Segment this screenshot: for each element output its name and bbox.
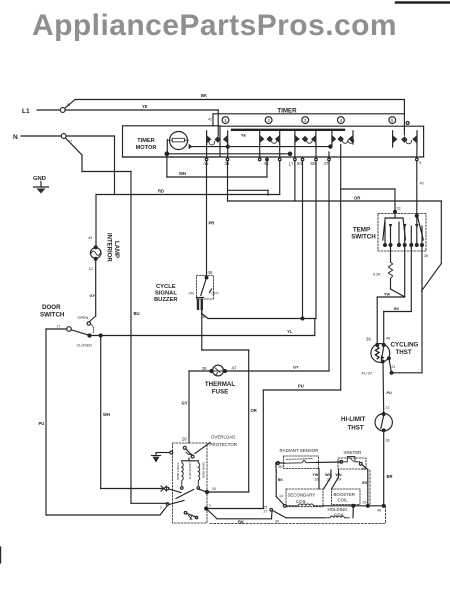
svg-text:PU: PU: [39, 421, 45, 426]
svg-text:RD: RD: [362, 481, 368, 485]
main winding: [197, 461, 205, 490]
wire YW temp switch to cycling left: [377, 245, 405, 345]
thermal fuse F1: [202, 365, 237, 395]
wire BK from L1 to timer 5: [65, 93, 409, 135]
overload protector label: [195, 435, 237, 454]
svg-text:IGNITER: IGNITER: [344, 450, 362, 455]
igniter R2: [338, 450, 366, 471]
svg-text:YW: YW: [313, 473, 319, 477]
svg-text:BR: BR: [387, 474, 393, 479]
svg-text:WN: WN: [336, 473, 342, 477]
timer motor M: [165, 132, 192, 156]
svg-text:40: 40: [420, 182, 424, 186]
motor winding bridge: [182, 460, 199, 462]
svg-text:28: 28: [202, 366, 207, 371]
svg-text:27: 27: [264, 510, 268, 514]
timer switch cluster 5: [393, 131, 417, 147]
wire BV temp switch to cycling right: [384, 245, 412, 345]
wire terminal 45 to buzzer: [207, 161, 215, 277]
svg-text:75: 75: [67, 103, 71, 107]
wire terminal 17b to OR bus: [294, 161, 296, 201]
svg-text:HOLDING: HOLDING: [328, 507, 349, 512]
door switch S1: [40, 304, 94, 348]
svg-text:BV: BV: [394, 307, 400, 311]
motor ground: [152, 451, 173, 463]
hi-limit thermostat TH2: [341, 406, 392, 443]
svg-text:1: 1: [209, 504, 211, 508]
svg-text:BOOSTER: BOOSTER: [334, 492, 355, 497]
secondary coil L1s: [283, 489, 323, 507]
interior lamp DS1: [88, 195, 101, 272]
interior lamp label: [106, 233, 120, 262]
ground GND: [33, 176, 49, 194]
timer terminal 48b: [258, 157, 261, 161]
timer terminal 36: [225, 157, 230, 166]
svg-text:SWITCH: SWITCH: [40, 312, 65, 319]
jumper timer to temp switch 33: [341, 189, 401, 213]
svg-text:CLOSED: CLOSED: [77, 344, 93, 348]
timer terminal 17: [278, 157, 281, 161]
svg-text:46: 46: [377, 509, 381, 513]
wire terminal 36 down: [227, 161, 229, 201]
wire GY thermal fuse to overload: [182, 371, 212, 443]
svg-text:47: 47: [324, 161, 329, 166]
wire terminal 47 to thermal fuse: [328, 161, 330, 371]
node N: [13, 134, 72, 144]
svg-text:24: 24: [338, 478, 342, 482]
wire lamp to door switch open: [89, 259, 96, 322]
svg-text:OR: OR: [251, 408, 257, 413]
wires YW WN to coils: [313, 469, 342, 490]
svg-text:THERMAL: THERMAL: [205, 381, 235, 388]
wire BU from N down left side: [66, 138, 168, 503]
timer terminal 60: [301, 157, 304, 161]
svg-text:36: 36: [366, 337, 371, 342]
temp switch bridge: [383, 212, 424, 240]
wire temp switch to cycling 21: [392, 245, 423, 373]
overload protector sw: [183, 446, 194, 461]
wire WH timer motor to terminal 48: [167, 154, 267, 177]
svg-text:5: 5: [391, 118, 394, 123]
timer position circles 1-5: [222, 117, 396, 124]
wire BK radiant sensor to secondary coil: [276, 463, 284, 505]
wire buzzer 30 to timer 60: [202, 310, 316, 320]
timer switch cluster 3: [295, 131, 316, 144]
motor terminal 1: [205, 504, 211, 511]
timer switch cluster 1: [207, 131, 230, 148]
svg-text:29: 29: [363, 501, 367, 505]
wire jog buzzer bus to YL: [314, 319, 316, 336]
wire terminal 94 to buzzer junction: [302, 161, 304, 319]
svg-text:PR: PR: [209, 221, 215, 226]
booster coil L2: [332, 489, 361, 505]
svg-text:DRIVE MTR: DRIVE MTR: [188, 463, 192, 480]
timer terminal 94: [289, 157, 303, 167]
svg-text:49: 49: [386, 337, 390, 341]
svg-text:DOOR: DOOR: [42, 304, 61, 311]
wire OR bus: [228, 196, 442, 292]
cycling thermostat TH1: [362, 337, 419, 376]
timer terminal 60b: [311, 157, 318, 166]
centrifugal switch blade: [160, 487, 194, 509]
svg-text:PU: PU: [387, 391, 393, 395]
svg-text:36: 36: [386, 439, 390, 443]
svg-text:YW: YW: [384, 293, 391, 297]
start winding: [176, 461, 192, 490]
wire PU temp switch to motor circuit: [207, 384, 341, 509]
svg-text:WH: WH: [179, 171, 186, 176]
wire YL door switch to timer 94: [90, 329, 315, 337]
svg-text:PU 37: PU 37: [362, 372, 373, 376]
wire radiant sensor to igniter: [316, 461, 341, 463]
timer switch cluster 2: [260, 131, 280, 147]
drive motor M1 box: [173, 443, 208, 523]
svg-text:GY: GY: [293, 366, 299, 370]
wire timer motor to cam 4 lower: [167, 152, 292, 155]
svg-text:L1: L1: [22, 108, 30, 115]
svg-text:47: 47: [232, 366, 237, 371]
svg-text:60: 60: [311, 161, 316, 166]
svg-text:28: 28: [182, 437, 187, 442]
svg-text:MOTOR: MOTOR: [136, 145, 157, 151]
svg-text:CYCLE: CYCLE: [156, 284, 176, 290]
svg-text:43: 43: [88, 236, 92, 240]
timer switch cluster 4: [332, 131, 354, 146]
svg-text:WN: WN: [325, 473, 331, 477]
page edge tick bottom left: [0, 547, 2, 563]
wire N to RD bus: [66, 136, 114, 195]
svg-text:TEMP: TEMP: [353, 227, 370, 234]
svg-text:37: 37: [386, 406, 390, 410]
svg-text:14: 14: [279, 494, 283, 498]
cycle signal buzzer BZ1: [154, 270, 219, 310]
timer internal risers: [207, 144, 417, 157]
svg-text:YE: YE: [142, 104, 148, 109]
svg-text:THST: THST: [396, 349, 412, 356]
svg-text:22: 22: [327, 478, 331, 482]
svg-text:9.2K: 9.2K: [373, 273, 381, 277]
wire WH door switch to motor: [101, 336, 167, 492]
wire terminal 60 to buzzer junction: [315, 161, 317, 319]
svg-text:COIL: COIL: [338, 498, 349, 503]
svg-text:1: 1: [224, 118, 227, 123]
svg-text:BUZZER: BUZZER: [154, 297, 178, 303]
svg-text:OVERLOAD: OVERLOAD: [211, 435, 235, 440]
logo underline top right: [396, 1, 450, 3]
svg-text:PU: PU: [298, 384, 304, 389]
svg-text:12: 12: [89, 267, 93, 271]
wire BR hi-limit to holding coil: [384, 430, 393, 506]
svg-text:2: 2: [267, 118, 270, 123]
svg-text:21: 21: [392, 365, 396, 369]
svg-text:LAMP: LAMP: [113, 241, 119, 258]
radiant sensor RS1: [276, 448, 319, 469]
timer terminal 48: [264, 157, 269, 166]
wire YE from L1 to timer 42: [65, 104, 218, 136]
wire cycling to hi-limit: [383, 363, 392, 414]
motor bottom switch: [184, 512, 198, 520]
wire RD bus lamp to terminal 17: [96, 161, 280, 195]
timer motor U1 box: [123, 126, 221, 157]
coil assembly dashed outline: [210, 470, 386, 524]
timer terminal 9: [416, 157, 422, 165]
wire timer motor to cam 4 upper: [192, 145, 332, 148]
svg-text:BK: BK: [278, 478, 284, 482]
wire OR buzzer to motor switch: [202, 310, 257, 492]
svg-text:20: 20: [212, 487, 216, 491]
svg-text:BU: BU: [134, 311, 140, 316]
svg-text:ON: ON: [189, 292, 195, 296]
wire thermal fuse to timer 47: [225, 370, 329, 372]
svg-text:MAIN WDG: MAIN WDG: [201, 463, 205, 479]
wire BK motor to coils: [206, 509, 271, 525]
svg-text:BK: BK: [201, 93, 207, 98]
svg-text:94: 94: [297, 161, 302, 166]
svg-text:25: 25: [315, 478, 319, 482]
svg-text:SECONDARY: SECONDARY: [288, 493, 316, 498]
wire 40 timer terminal 9 to temp switch: [415, 161, 423, 218]
timer box: [123, 108, 424, 158]
temp switch S2 box: [351, 214, 426, 252]
svg-text:GND: GND: [33, 176, 46, 182]
svg-text:YL: YL: [287, 329, 293, 334]
svg-text:INTERIOR: INTERIOR: [106, 233, 112, 262]
svg-text:SIGNAL: SIGNAL: [155, 291, 177, 297]
svg-text:RD: RD: [158, 189, 164, 194]
svg-text:SWITCH: SWITCH: [351, 234, 376, 241]
crossover bridge at timer 36: [228, 190, 269, 195]
svg-text:9: 9: [419, 161, 421, 165]
svg-text:FUSE: FUSE: [212, 389, 229, 396]
svg-text:HI-LIMIT: HI-LIMIT: [341, 416, 366, 423]
svg-text:CYCLING: CYCLING: [391, 342, 419, 349]
svg-text:START WDG: START WDG: [176, 463, 180, 481]
svg-text:N: N: [13, 134, 18, 141]
svg-text:50: 50: [279, 465, 283, 469]
svg-text:30: 30: [275, 520, 279, 524]
svg-text:17: 17: [289, 162, 294, 167]
wire secondary coil to BR junction: [323, 504, 385, 512]
svg-text:OFF: OFF: [212, 292, 220, 296]
terminal 15 27: [264, 506, 273, 519]
node L1: [22, 108, 65, 115]
svg-text:COIL: COIL: [296, 499, 307, 504]
wire timer cam4 to PU corner: [340, 145, 342, 391]
svg-text:4: 4: [340, 118, 343, 123]
svg-text:WH: WH: [103, 412, 110, 417]
svg-text:33: 33: [397, 207, 401, 211]
svg-text:PROTECTOR: PROTECTOR: [210, 442, 237, 447]
holding coil L3: [324, 506, 353, 518]
wire RD igniter to booster junction: [362, 465, 368, 506]
svg-text:OPEN: OPEN: [78, 316, 89, 320]
timer cam bus bar: [232, 129, 344, 131]
svg-text:TIMER: TIMER: [137, 138, 154, 144]
resistor 9.2K: [373, 245, 404, 297]
svg-text:THST: THST: [348, 425, 364, 432]
wire PU door switch common down: [39, 329, 168, 515]
svg-text:RADIANT SENSOR: RADIANT SENSOR: [280, 448, 319, 453]
svg-text:OR: OR: [354, 196, 360, 201]
svg-text:48: 48: [264, 161, 269, 166]
svg-text:45: 45: [208, 270, 213, 275]
wire 30 to holding coil: [273, 511, 324, 524]
svg-text:3: 3: [304, 118, 307, 123]
svg-text:2: 2: [160, 506, 162, 510]
timer terminal 47: [324, 157, 331, 166]
svg-text:26: 26: [424, 254, 428, 258]
svg-text:17: 17: [57, 325, 61, 329]
svg-text:42: 42: [208, 118, 212, 122]
svg-text:GY: GY: [90, 294, 96, 298]
timer terminal 45: [204, 157, 209, 166]
temp switch posts: [384, 216, 428, 258]
svg-text:GY: GY: [182, 401, 188, 406]
svg-text:30: 30: [202, 315, 206, 319]
svg-text:COIL: COIL: [334, 513, 345, 518]
motor terminal 20: [199, 487, 249, 494]
svg-text:YE: YE: [241, 134, 247, 138]
